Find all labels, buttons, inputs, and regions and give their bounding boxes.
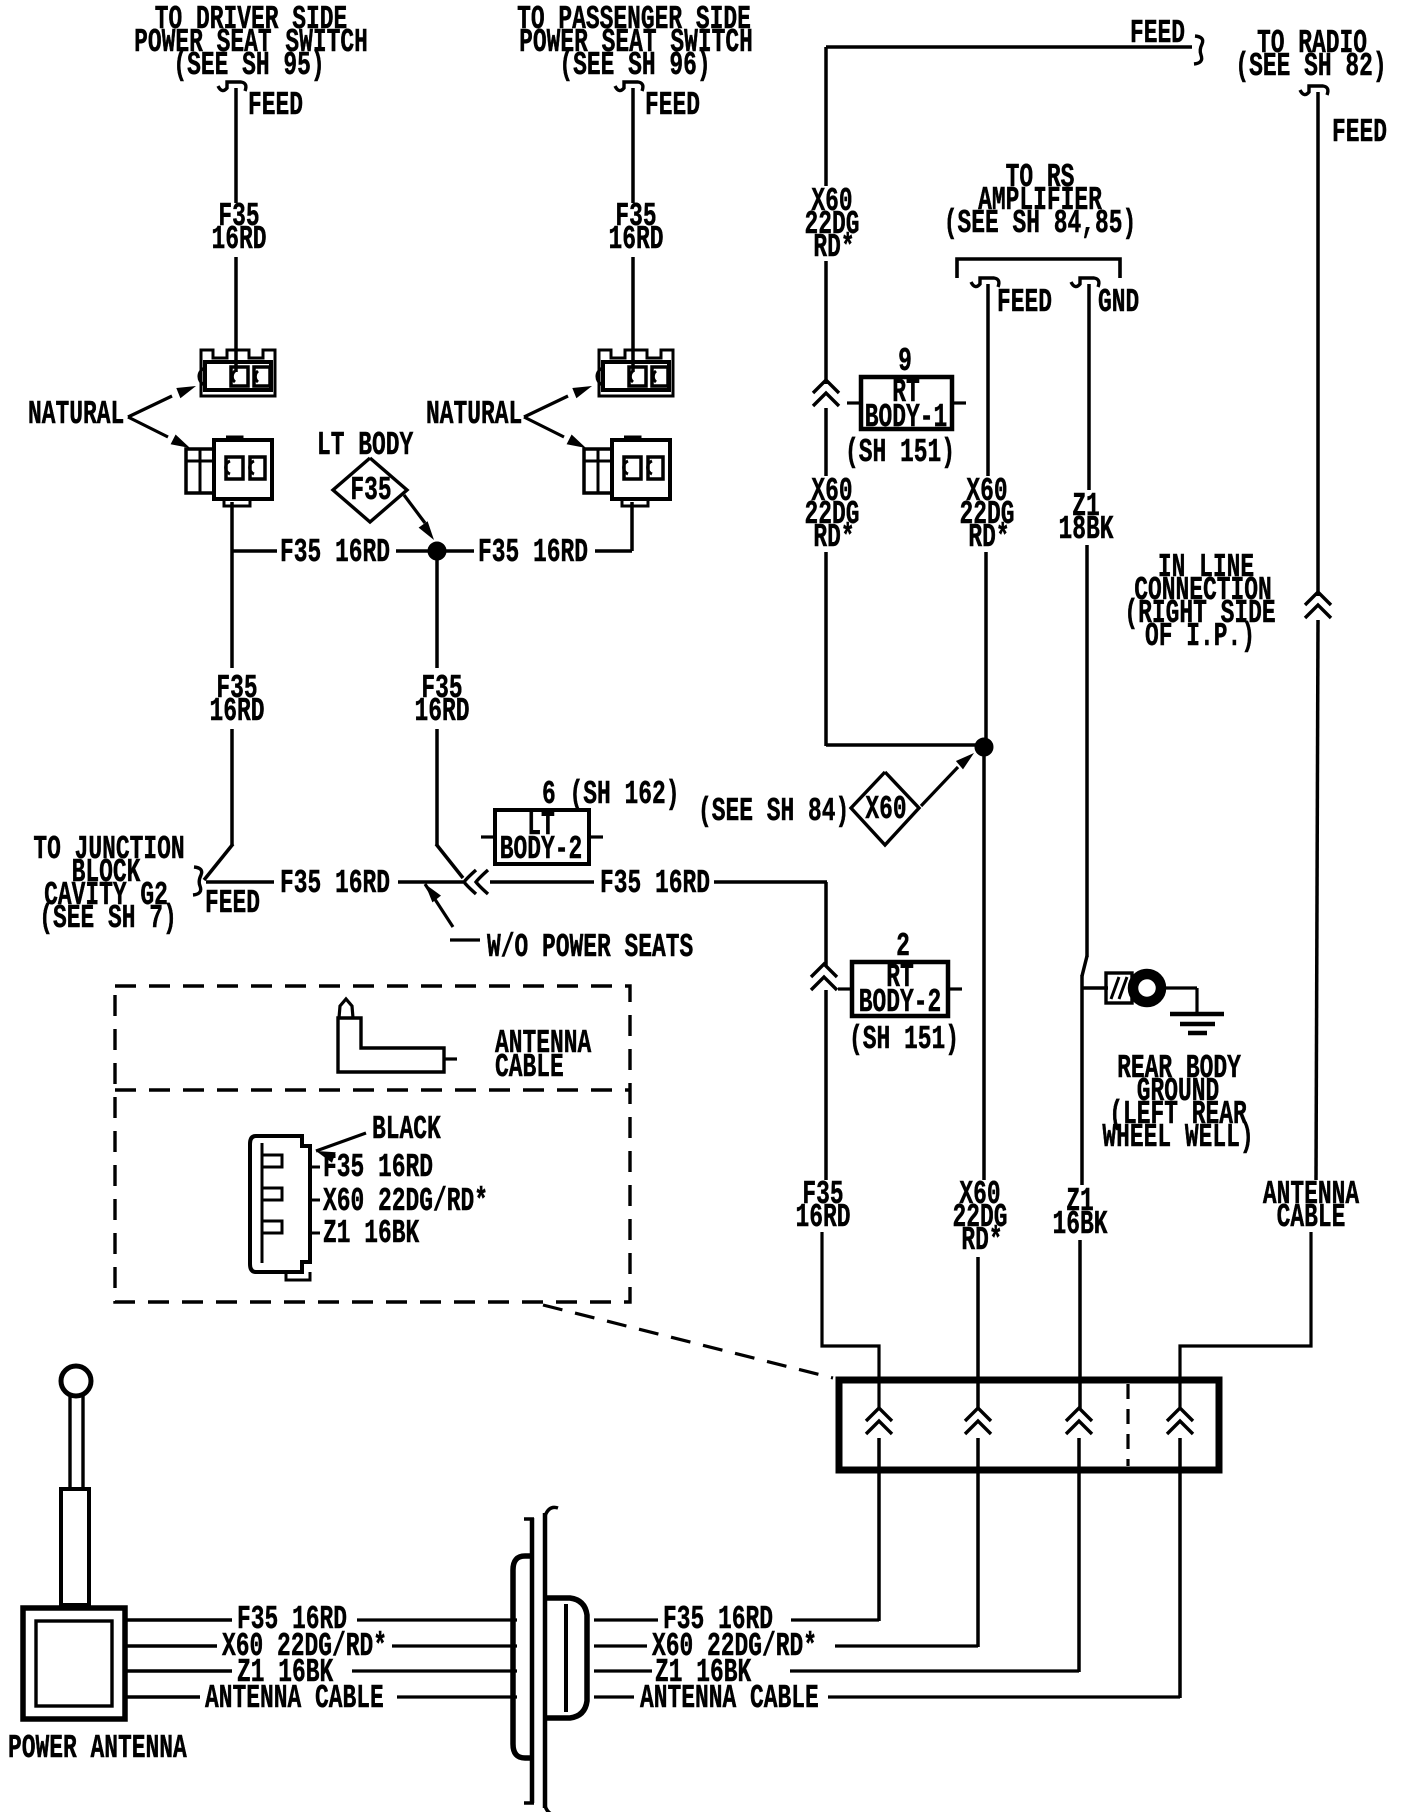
wire antenna cable into connector box (1180, 1232, 1311, 1410)
wire X60 left horizontal into junction (826, 743, 980, 747)
connector (passenger side, lower) (584, 437, 670, 506)
wire F35 driver feed (upper) (234, 88, 238, 203)
power antenna mast lower section (61, 1489, 89, 1605)
svg-text:X60: X60 (865, 791, 906, 828)
wire F35 row left (232, 549, 277, 553)
svg-text:LT BODY: LT BODY (317, 427, 413, 464)
wire antenna cable from antenna (126, 1695, 200, 1699)
svg-text:NATURAL: NATURAL (426, 396, 522, 433)
svg-text:16BK: 16BK (1053, 1206, 1108, 1243)
svg-text:ANTENNA CABLE: ANTENNA CABLE (640, 1680, 819, 1717)
leader arrow diamond X60 -> junction (921, 767, 958, 806)
grommet / body panel pass-through (524, 1517, 534, 1521)
dashed divider inside connector box (1126, 1384, 1129, 1466)
wire X60 centre (seg 3) (982, 747, 986, 1180)
wire Z1 to grommet (594, 1669, 652, 1672)
antenna cable symbol (338, 1018, 444, 1072)
ground symbol (1170, 1012, 1224, 1017)
stub Z1 (detail) (310, 1232, 320, 1235)
in-line connector chevrons (X60 left) (813, 380, 839, 393)
stub right (LT BODY-2) (589, 835, 603, 838)
svg-text:CABLE: CABLE (495, 1049, 564, 1086)
wire antenna cable to grommet (594, 1695, 634, 1698)
connector chevrons at x=1079 (1066, 1408, 1092, 1421)
wire to ring terminal (1082, 986, 1108, 990)
connector chevrons at x=978 (965, 1408, 991, 1421)
svg-text:FEED: FEED (1332, 114, 1387, 151)
connector chevrons at x=879 (866, 1408, 892, 1421)
svg-text:(SH 151): (SH 151) (845, 434, 955, 471)
inline connector box RT BODY-2 (852, 962, 948, 1016)
svg-text:CABLE: CABLE (1277, 1199, 1346, 1236)
off-page curl (junction block) (193, 867, 202, 895)
svg-text:F35 16RD: F35 16RD (280, 534, 390, 571)
wire F35 run (segment 1) (206, 880, 274, 884)
wire F35 below box (877, 1438, 881, 1621)
svg-text:F35 16RD: F35 16RD (323, 1149, 433, 1186)
wire antenna cable (seg 1) (1316, 92, 1320, 596)
svg-text:18BK: 18BK (1059, 511, 1114, 548)
splice diamond X60 (851, 772, 919, 845)
svg-text:FEED: FEED (248, 87, 303, 124)
wire into splice (396, 549, 429, 553)
connector chevrons at x=1180 (1167, 1408, 1193, 1421)
wire antenna cable below box (1178, 1438, 1182, 1698)
wire from driver lower connector (230, 502, 234, 551)
svg-text:BODY-2: BODY-2 (500, 831, 583, 868)
in-line connector chevrons (F35 run) (464, 870, 476, 894)
dashed detail box (in-line connection detail) (115, 986, 630, 1302)
wire F35 left descender (upper) (230, 551, 234, 668)
leader arrows NATURAL -> driver connectors (128, 396, 172, 417)
wire antenna cable (seg 2) (1316, 620, 1318, 1180)
wire X60 top horizontal (826, 45, 1192, 49)
wire Z1 (seg 1) (1087, 284, 1091, 490)
wire bend to junction block feed (204, 844, 233, 880)
in-line connector box (4 cavities) (839, 1380, 1219, 1470)
svg-text:F35 16RD: F35 16RD (600, 865, 710, 902)
svg-text:16RD: 16RD (210, 693, 265, 730)
wire out of splice (446, 549, 474, 553)
splice junction dot (F35) (428, 542, 446, 560)
svg-text:BLACK: BLACK (372, 1111, 441, 1148)
wire X60 left (seg 4) (824, 552, 828, 746)
dashed leader to connector box (543, 1305, 833, 1378)
connector (driver side, lower) (186, 437, 272, 506)
svg-text:(SEE SH 82): (SEE SH 82) (1235, 48, 1386, 85)
svg-text:RD*: RD* (961, 1222, 1002, 1259)
svg-text:16RD: 16RD (415, 693, 470, 730)
svg-text:FEED: FEED (205, 885, 260, 922)
wire F35 run (segment 2) (398, 880, 463, 884)
svg-text:RD*: RD* (813, 519, 854, 556)
wire X60 left (seg 2) (824, 261, 828, 384)
wire X60 below box (976, 1438, 980, 1647)
svg-text:F35: F35 (350, 472, 391, 509)
grommet left boot (513, 1556, 532, 1758)
svg-text:6 (SH 162): 6 (SH 162) (542, 776, 680, 813)
svg-text:WHEEL WELL): WHEEL WELL) (1102, 1119, 1253, 1156)
splice diamond F35 (LT BODY) (333, 458, 407, 522)
svg-text:(SEE SH 95): (SEE SH 95) (173, 47, 324, 84)
power antenna base (23, 1608, 125, 1719)
wire X60 left (seg 1) (824, 47, 828, 186)
wire F35 right (seg 1) (824, 882, 828, 966)
in-line connector chevrons (F35 right) (811, 964, 837, 977)
inline connector box LT BODY-2 (495, 810, 589, 864)
svg-text:16RD: 16RD (609, 221, 664, 258)
connector (4-way in-line, detail) (250, 1136, 310, 1280)
stub right (RT BODY-1) (952, 401, 966, 404)
in-line connection chevrons (antenna cable) (1305, 592, 1331, 605)
bracket (RS amplifier) (957, 259, 1120, 278)
junction dot (X60) (975, 738, 993, 756)
svg-text:(SEE SH 96): (SEE SH 96) (559, 47, 710, 84)
wire Z1 (seg 4) (1078, 1240, 1082, 1410)
dashed divider (115, 1088, 630, 1091)
power antenna mast (68, 1396, 71, 1489)
svg-text:F35 16RD: F35 16RD (280, 865, 390, 902)
svg-text:ANTENNA CABLE: ANTENNA CABLE (205, 1680, 384, 1717)
wire ring to ground (1163, 986, 1197, 989)
wire X60 centre (seg 1) (986, 284, 990, 476)
wire F35 passenger feed (upper) (631, 88, 635, 203)
svg-text:RD*: RD* (968, 519, 1009, 556)
svg-text:FEED: FEED (645, 87, 700, 124)
stub left (RT BODY-1) (847, 401, 861, 404)
wire F35 run (segment 3) (490, 880, 594, 884)
wire Z1 (seg 3) (1080, 975, 1084, 1185)
connector (passenger side, upper) (597, 350, 673, 396)
stub X60 (detail) (310, 1199, 320, 1202)
wire F35 into connector box (822, 1232, 879, 1410)
wire F35 left descender (lower) (230, 729, 234, 845)
leader arrow diamond -> splice junction (404, 495, 425, 523)
svg-text:NATURAL: NATURAL (28, 396, 124, 433)
wire Z1 below box (1077, 1438, 1081, 1672)
wire X60 centre (seg 2) (984, 552, 988, 740)
wire from passenger lower connector (630, 502, 634, 551)
svg-text:F35 16RD: F35 16RD (478, 534, 588, 571)
svg-text:POWER ANTENNA: POWER ANTENNA (8, 1730, 187, 1767)
svg-text:(SH 151): (SH 151) (849, 1021, 959, 1058)
svg-text:Z1 16BK: Z1 16BK (323, 1215, 419, 1252)
leader arrows NATURAL -> passenger connectors (524, 396, 568, 417)
inline connector box RT BODY-1 (861, 377, 952, 429)
power antenna mast ball (61, 1366, 91, 1396)
svg-text:OF I.P.): OF I.P.) (1145, 618, 1255, 655)
svg-text:FEED: FEED (997, 284, 1052, 321)
wire Z1 from antenna (126, 1669, 232, 1673)
wire F35 to grommet (594, 1618, 658, 1621)
wire bend into row 882 (436, 844, 463, 878)
off-page curl (radio) (1300, 86, 1328, 95)
wire F35 from antenna (126, 1618, 232, 1622)
svg-text:(SEE SH 7): (SEE SH 7) (39, 900, 177, 937)
svg-text:RD*: RD* (813, 229, 854, 266)
ring terminal (rear body ground) (1106, 973, 1132, 1003)
stub F35 (detail) (310, 1166, 320, 1169)
wire F35 right (seg 2) (824, 990, 828, 1180)
stub right (RT BODY-2) (948, 987, 962, 990)
svg-text:16RD: 16RD (212, 221, 267, 258)
wire Z1 bend (1082, 956, 1087, 976)
wire F35 run (segment 4) (714, 880, 827, 884)
wire X60 centre (seg 4) (976, 1257, 980, 1410)
svg-text:BODY-1: BODY-1 (865, 399, 948, 436)
wire F35 mid descender (upper) (435, 559, 439, 668)
stub (antenna cable symbol) (444, 1057, 457, 1060)
curl (amplifier FEED wire) (971, 278, 999, 287)
svg-text:W/O POWER SEATS: W/O POWER SEATS (487, 929, 693, 966)
wire F35 driver feed (lower) (234, 257, 238, 372)
wire X60 left (seg 3) (824, 408, 828, 476)
wire F35 passenger feed (lower) (631, 257, 635, 372)
stub left (RT BODY-2) (838, 987, 852, 990)
wire F35 row right (595, 549, 632, 553)
leader arrow BLACK -> connector (316, 1151, 336, 1163)
connector (driver side, upper) (199, 350, 275, 396)
off-page curl (driver seat switch feed) (218, 82, 246, 91)
off-page curl (passenger seat switch feed) (615, 82, 643, 91)
wire X60 to grommet (594, 1644, 647, 1647)
stub left (LT BODY-2) (481, 835, 495, 838)
grommet right bell (547, 1598, 587, 1718)
svg-text:16RD: 16RD (796, 1199, 851, 1236)
wire F35 mid descender (lower) (435, 729, 439, 845)
leader arrow W/O POWER SEATS (425, 884, 441, 902)
off-page curl (top feed) (1194, 36, 1203, 64)
svg-text:GND: GND (1098, 284, 1139, 321)
svg-text:(SEE SH 84,85): (SEE SH 84,85) (944, 205, 1137, 242)
wire X60 from antenna (126, 1644, 217, 1648)
wire Z1 (seg 2) (1085, 545, 1089, 957)
svg-text:(SEE SH 84): (SEE SH 84) (698, 793, 849, 830)
curl (amplifier GND wire) (1071, 278, 1099, 287)
svg-text:BODY-2: BODY-2 (859, 984, 942, 1021)
